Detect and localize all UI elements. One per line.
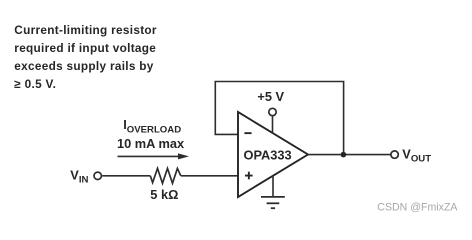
junction node (output/feedback)	[341, 152, 347, 158]
svg-text:CSDN @FmixZA: CSDN @FmixZA	[377, 202, 458, 214]
ground	[261, 197, 285, 208]
svg-text:exceeds supply rails by: exceeds supply rails by	[14, 59, 153, 73]
wire VIN terminal to resistor R1	[102, 175, 150, 177]
wire op-amp negative supply pin to ground	[272, 176, 274, 197]
current direction arrow	[118, 153, 190, 159]
wire feedback: output junction up, across top, down to inverting input	[215, 82, 343, 155]
node VIN input terminal	[94, 172, 101, 179]
pin label noninverting input (plus)	[245, 172, 253, 180]
svg-text:+5 V: +5 V	[257, 89, 284, 104]
svg-text:required if input voltage: required if input voltage	[14, 41, 156, 55]
wire +5 V terminal to op-amp positive supply pin	[272, 116, 274, 133]
wire op-amp output to VOUT terminal	[308, 154, 391, 156]
wire R1 to op-amp noninverting input	[181, 175, 238, 177]
supply +5 V terminal	[269, 108, 276, 115]
svg-text:Current-limiting resistor: Current-limiting resistor	[14, 23, 157, 37]
svg-text:5 kΩ: 5 kΩ	[150, 187, 178, 202]
node VOUT output terminal	[391, 151, 398, 158]
svg-text:10 mA max: 10 mA max	[117, 136, 185, 151]
annotation note text	[14, 23, 157, 91]
svg-text:≥ 0.5 V.: ≥ 0.5 V.	[14, 77, 56, 91]
op-amp U1 triangle body	[238, 112, 308, 197]
resistor R1	[150, 168, 181, 183]
pin label inverting input (minus)	[244, 132, 251, 134]
svg-text:OPA333: OPA333	[244, 148, 292, 163]
